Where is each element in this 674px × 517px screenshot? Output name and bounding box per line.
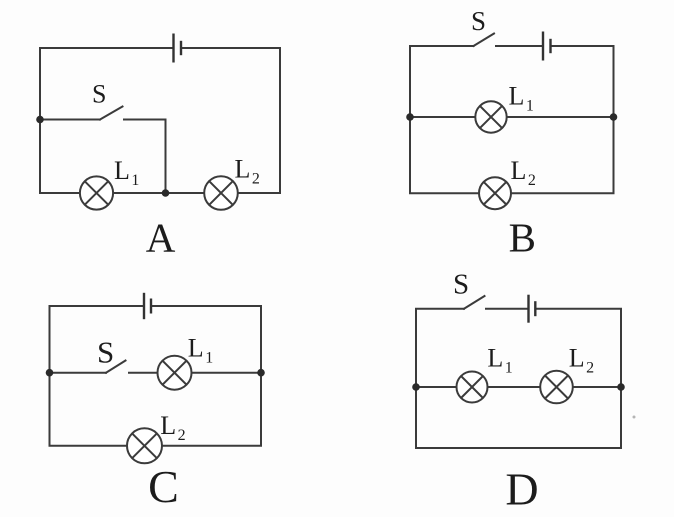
svg-text:L: L [114,156,130,185]
svg-text:2: 2 [586,360,594,377]
svg-text:L: L [188,333,204,362]
svg-text:S: S [471,6,486,36]
svg-text:2: 2 [178,427,186,444]
svg-text:L: L [569,344,585,373]
svg-text:1: 1 [131,172,139,189]
svg-text:L: L [511,156,527,185]
svg-text:1: 1 [526,98,534,115]
svg-text:L: L [160,411,176,440]
svg-text:A: A [146,214,176,260]
svg-text:L: L [235,155,251,184]
svg-text:1: 1 [205,349,213,366]
svg-text:L: L [509,82,525,111]
svg-text:S: S [453,269,469,301]
svg-text:S: S [92,80,106,109]
svg-text:2: 2 [252,171,260,188]
svg-text:B: B [509,214,536,260]
svg-text:C: C [148,461,179,512]
svg-text:1: 1 [505,360,513,377]
svg-text:S: S [97,335,114,370]
svg-text:L: L [487,344,503,373]
svg-text:D: D [505,464,538,515]
svg-text:2: 2 [528,172,536,189]
